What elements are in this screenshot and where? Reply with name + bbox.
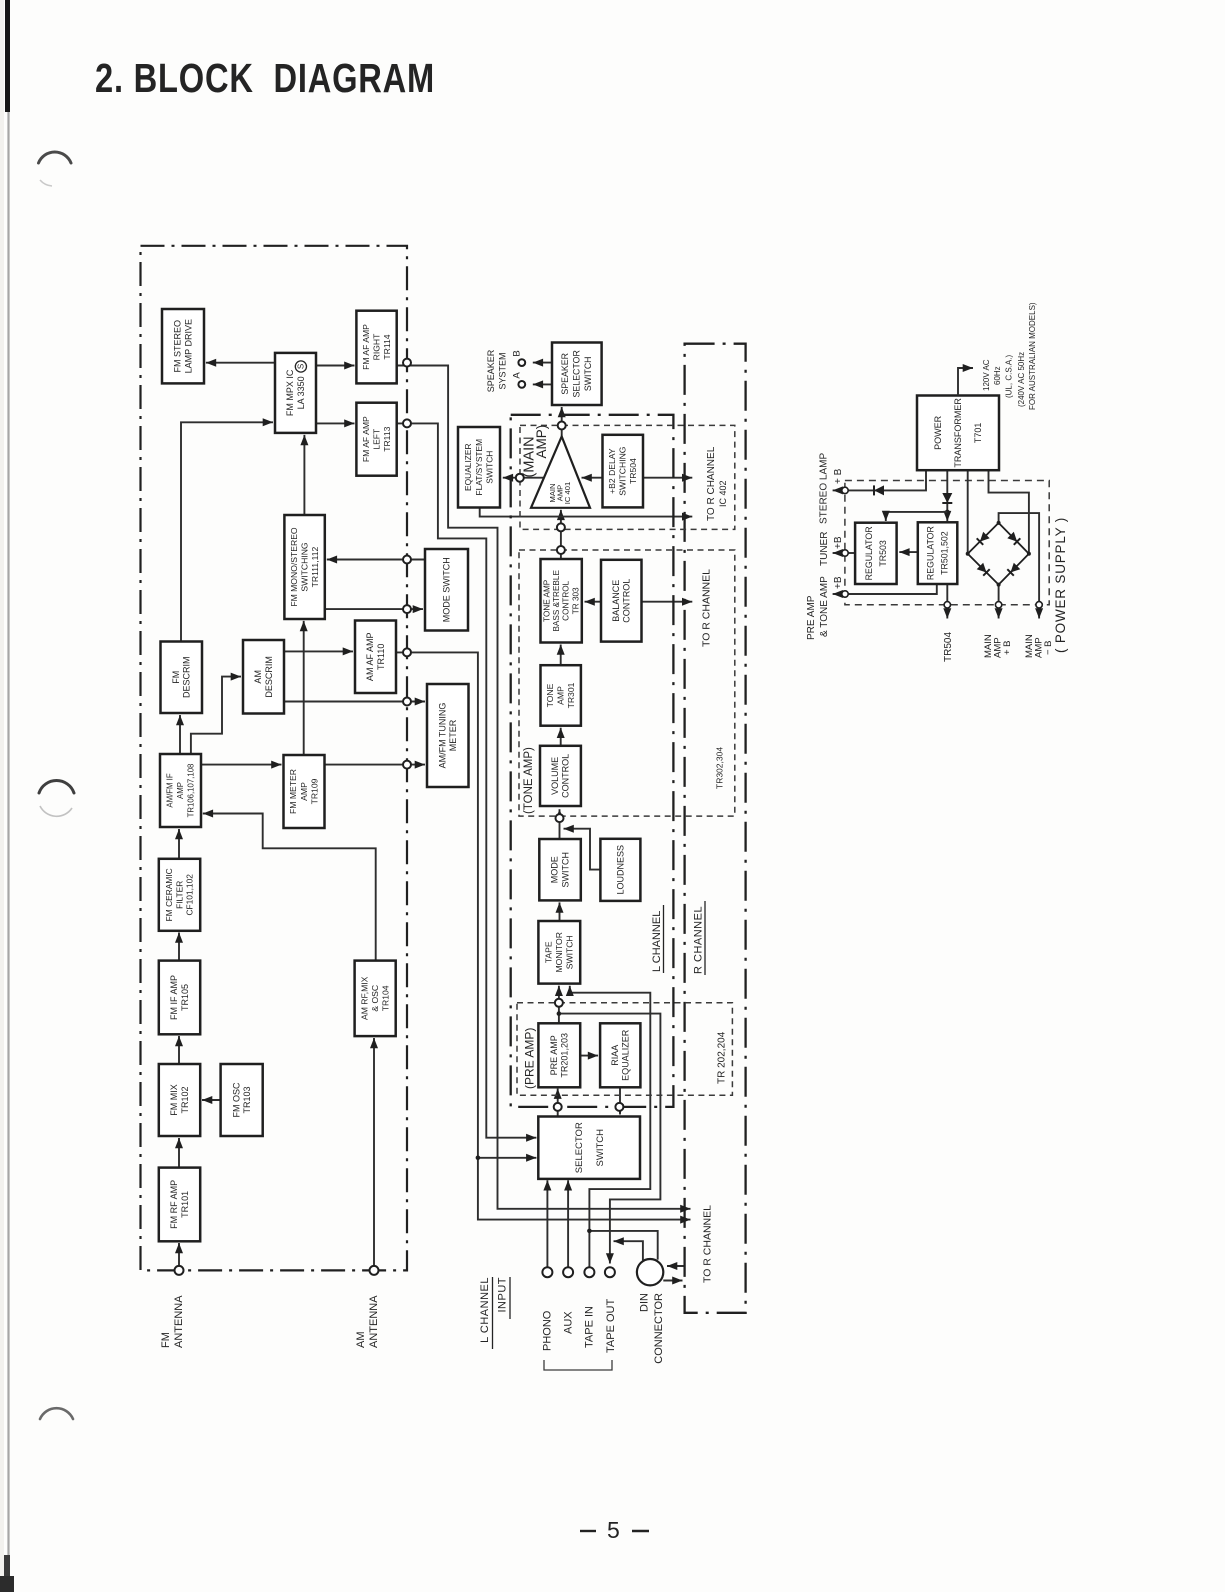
- svg-text:TR504: TR504: [943, 632, 954, 662]
- label 120V AC 60Hz: [982, 302, 1037, 410]
- svg-text:& TONE AMP: & TONE AMP: [819, 576, 830, 637]
- wire AUX to SELECTOR SWITCH: [567, 1180, 569, 1267]
- svg-text:SELECTOR: SELECTOR: [572, 350, 582, 397]
- block PRE AMP TR201 TR203: [538, 1023, 580, 1087]
- block FM AF AMP LEFT TR113: [356, 403, 396, 476]
- wire RIAA EQUALIZER to SELECTOR SWITCH: [619, 1087, 621, 1114]
- svg-text:TR 303: TR 303: [571, 587, 580, 614]
- svg-text:TR111,112: TR111,112: [310, 546, 320, 587]
- input group bracket: [544, 1360, 612, 1370]
- svg-text:TR103: TR103: [242, 1086, 252, 1113]
- wire PRE AMP record out to TAPE OUT: [559, 1014, 661, 1264]
- svg-text:TR504: TR504: [628, 458, 638, 484]
- block RIAA EQUALIZER: [600, 1023, 640, 1087]
- transformer T701 POWER TRANSFORMER: [917, 396, 999, 471]
- svg-text:TR102: TR102: [180, 1086, 190, 1113]
- wire FM antenna to FM RF AMP: [178, 1243, 180, 1270]
- svg-text:(TONE AMP): (TONE AMP): [523, 747, 535, 814]
- block FM DESCRIM: [161, 642, 203, 714]
- svg-text:MODE SWITCH: MODE SWITCH: [442, 557, 452, 622]
- node pre amp +B: [842, 591, 848, 597]
- label PRE AMP & TONE AMP +B: [806, 576, 844, 640]
- diode stereo lamp supply: [874, 485, 884, 495]
- svg-text:INPUT: INPUT: [497, 1277, 509, 1313]
- node TAPE IN input: [584, 1267, 594, 1277]
- node tuning meter AM: [403, 698, 411, 706]
- wire L channel audio to R channel: [478, 1158, 691, 1220]
- label (MAIN AMP): [521, 425, 549, 478]
- label R CHANNEL underlined: [693, 901, 705, 975]
- wire SPEAKER SELECTOR to speaker B: [533, 362, 552, 364]
- svg-text:TONE: TONE: [545, 683, 555, 707]
- svg-text:AM: AM: [355, 1332, 367, 1349]
- node TR114 output: [403, 359, 411, 367]
- svg-text:5: 5: [607, 1517, 620, 1543]
- wire PRE AMP to TAPE MONITOR SWITCH: [558, 986, 560, 1024]
- svg-text:FM MPX IC: FM MPX IC: [285, 369, 295, 416]
- svg-text:AMP): AMP): [534, 425, 549, 459]
- bridge rectifier D501-D504: [968, 523, 1029, 585]
- svg-text:AM RF,MIX: AM RF,MIX: [359, 976, 369, 1020]
- node TR504 supply: [944, 602, 950, 608]
- label MAIN AMP -B: [1024, 634, 1054, 658]
- svg-text:(PRE AMP): (PRE AMP): [523, 1028, 537, 1089]
- svg-text:FM: FM: [160, 1332, 172, 1348]
- page number: [580, 1517, 649, 1543]
- svg-text:FM MONO/STEREO: FM MONO/STEREO: [289, 527, 299, 607]
- svg-text:+B: +B: [833, 536, 844, 549]
- svg-text:CONNECTOR: CONNECTOR: [653, 1293, 665, 1364]
- svg-text:TO R CHANNEL: TO R CHANNEL: [701, 569, 713, 647]
- svg-text:TR114: TR114: [382, 334, 392, 359]
- svg-text:ANTENNA: ANTENNA: [173, 1295, 185, 1348]
- svg-text:SWITCH: SWITCH: [560, 852, 570, 888]
- svg-text:AM AF AMP: AM AF AMP: [365, 633, 375, 682]
- wire FM METER AMP to AM/FM TUNING METER: [325, 764, 426, 766]
- svg-text:(UL, C.S.A.): (UL, C.S.A.): [1005, 355, 1014, 398]
- node AM audio: [403, 648, 411, 656]
- svg-text:SPEAKER: SPEAKER: [560, 353, 570, 395]
- block AM/FM IF AMP TR106-108: [160, 754, 201, 827]
- svg-text:FLAT/SYSTEM: FLAT/SYSTEM: [474, 439, 484, 496]
- svg-text:EQUALIZER: EQUALIZER: [463, 443, 473, 490]
- svg-text:TR109: TR109: [309, 778, 319, 804]
- wire LOUDNESS to volume line: [564, 829, 601, 870]
- node PHONO input: [542, 1267, 552, 1277]
- svg-text:RIAA: RIAA: [610, 1045, 620, 1066]
- wire transformer to regulator TR501,502: [946, 470, 948, 521]
- svg-text:TO R CHANNEL: TO R CHANNEL: [702, 1205, 714, 1283]
- wire TAPE IN to TAPE MONITOR SWITCH: [570, 986, 651, 1267]
- block FM AF AMP RIGHT TR114: [356, 311, 396, 384]
- block FM IF AMP TR105: [159, 961, 200, 1035]
- node speaker system B: [518, 359, 525, 366]
- block SELECTOR SWITCH: [538, 1117, 640, 1179]
- node mode switch a: [403, 556, 411, 564]
- svg-text:SELECTOR: SELECTOR: [574, 1122, 585, 1173]
- wire TAPE MONITOR SWITCH to MODE SWITCH: [559, 902, 561, 921]
- svg-text:RIGHT: RIGHT: [371, 333, 381, 360]
- svg-text:L CHANNEL: L CHANNEL: [651, 911, 663, 972]
- svg-text:FM OSC: FM OSC: [231, 1082, 241, 1117]
- L channel dash-dot boundary box: [511, 415, 674, 1107]
- wire FM MONO/STEREO SWITCHING to FM MPX IC: [303, 435, 305, 515]
- label DIN CONNECTOR: [639, 1293, 666, 1364]
- svg-text:TR106,107,108: TR106,107,108: [187, 764, 196, 818]
- wire FM DESCRIM to FM MPX IC: [181, 422, 273, 641]
- wire MODE SWITCH to VOLUME CONTROL: [559, 809, 561, 839]
- svg-text:120V AC: 120V AC: [982, 359, 991, 391]
- block REGULATOR TR501 TR502: [918, 522, 958, 584]
- svg-text:TR104: TR104: [381, 985, 391, 1011]
- wire AM/FM IF AMP to FM METER AMP: [201, 764, 282, 766]
- svg-text:FM STEREO: FM STEREO: [173, 320, 183, 373]
- svg-text:METER: METER: [448, 719, 458, 751]
- wire transformer to bridge left: [967, 470, 969, 554]
- svg-text:B: B: [512, 350, 523, 356]
- scan edge artifacts (left border): [0, 0, 14, 1592]
- svg-text:SWITCHING: SWITCHING: [618, 446, 628, 495]
- wire MODE SWITCH to FM MONO/STEREO SWITCHING: [327, 559, 425, 561]
- connector DIN: [637, 1259, 663, 1285]
- svg-text:FM: FM: [171, 671, 181, 684]
- svg-text:TR105: TR105: [180, 984, 190, 1011]
- svg-text:CF101,102: CF101,102: [185, 874, 195, 916]
- junction dot tape in to DIN: [587, 1229, 592, 1234]
- block FM MONO/STEREO SWITCHING TR111 TR112: [284, 515, 324, 619]
- block FM STEREO LAMP DRIVE: [162, 309, 204, 383]
- svg-text:FOR AUSTRALIAN MODELS): FOR AUSTRALIAN MODELS): [1028, 302, 1037, 410]
- svg-text:POWER: POWER: [933, 415, 943, 450]
- wire FM OSC to FM MIX: [202, 1099, 221, 1101]
- wire main amp -B down arrow: [1038, 608, 1040, 619]
- punch hole top: [39, 152, 72, 163]
- svg-text:FM RF AMP: FM RF AMP: [169, 1180, 179, 1229]
- svg-text:SWITCHING: SWITCHING: [299, 542, 309, 591]
- svg-text:FM IF AMP: FM IF AMP: [169, 975, 179, 1020]
- svg-text:VOLUME: VOLUME: [550, 757, 560, 795]
- svg-text:TR302,304: TR302,304: [714, 747, 724, 789]
- svg-text:CONTROL: CONTROL: [622, 579, 632, 623]
- wire FM MPX IC to FM AF AMP LEFT TR113: [316, 422, 355, 424]
- svg-text:TR113: TR113: [382, 426, 392, 451]
- svg-text:60Hz: 60Hz: [993, 366, 1002, 385]
- svg-text:DESCRIM: DESCRIM: [264, 656, 274, 698]
- block REGULATOR TR503: [855, 523, 897, 584]
- wire PHONO to SELECTOR SWITCH: [546, 1180, 548, 1267]
- wire FM MPX IC to FM AF AMP RIGHT TR114: [316, 365, 355, 367]
- svg-text:LA 3350: LA 3350: [296, 376, 306, 409]
- node riaa to selector: [615, 1103, 623, 1111]
- junction dot record feed: [557, 1011, 562, 1016]
- wire BALANCE CONTROL to BASS TREBLE CONTROL: [585, 601, 602, 603]
- svg-text:FILTER: FILTER: [174, 881, 184, 909]
- svg-text:STEREO LAMP: STEREO LAMP: [818, 453, 829, 524]
- wire R channel to DIN connector: [667, 1265, 685, 1267]
- svg-text:IC 401: IC 401: [563, 482, 572, 504]
- node selector to preamp: [554, 1103, 562, 1111]
- block FM MPX IC LA3350: [275, 353, 316, 433]
- svg-text:+B2 DELAY: +B2 DELAY: [607, 448, 617, 494]
- svg-text:AUX: AUX: [563, 1311, 575, 1334]
- svg-text:TR501,502: TR501,502: [940, 531, 950, 575]
- svg-text:MODE: MODE: [550, 856, 560, 883]
- wire B2 DELAY SWITCHING to MAIN AMP: [582, 477, 603, 479]
- svg-text:R CHANNEL: R CHANNEL: [693, 906, 705, 974]
- wire FM MPX IC to FM STEREO LAMP DRIVE: [206, 362, 275, 364]
- node main amp +B: [995, 602, 1001, 608]
- node main amp output: [558, 422, 566, 430]
- wire AM DESCRIM to AM AF AMP: [284, 650, 353, 652]
- wire AM antenna to AM RF MIX OSC: [373, 1038, 375, 1270]
- label FM ANTENNA: [160, 1295, 185, 1348]
- svg-text:ANTENNA: ANTENNA: [368, 1295, 380, 1348]
- block VOLUME CONTROL: [540, 746, 581, 806]
- svg-text:FM METER: FM METER: [288, 769, 298, 814]
- wire FM RF AMP to FM MIX: [178, 1138, 180, 1168]
- wire PRE AMP to RIAA EQUALIZER: [580, 1055, 598, 1057]
- circled S mark: [295, 361, 306, 372]
- wire feed to regulator TR503: [886, 512, 948, 521]
- diode regulator supply: [942, 493, 952, 503]
- svg-text:TONE AMP: TONE AMP: [543, 579, 552, 622]
- svg-text:SYSTEM: SYSTEM: [498, 352, 508, 389]
- R channel dash-dot boundary box: [685, 344, 746, 1313]
- svg-text:(240V AC 50Hz: (240V AC 50Hz: [1017, 352, 1026, 407]
- block FM MIX TR102: [159, 1064, 200, 1136]
- svg-text:SWITCH: SWITCH: [485, 451, 495, 484]
- wire DIN connector to TAPE OUT line: [614, 1241, 643, 1260]
- node main amp -B: [1036, 602, 1042, 608]
- node FM antenna terminal: [175, 1266, 184, 1275]
- wire transformer to bridge right: [989, 470, 1029, 554]
- svg-text:CONTROL: CONTROL: [562, 580, 571, 620]
- svg-text:TR 202,204: TR 202,204: [716, 1031, 727, 1084]
- block MODE SWITCH (tuner): [425, 549, 468, 631]
- svg-text:MONITOR: MONITOR: [554, 932, 564, 972]
- svg-text:TR301: TR301: [566, 682, 576, 708]
- svg-text:AM: AM: [253, 670, 263, 684]
- label STEREO LAMP +B: [818, 453, 844, 524]
- wire FM MIX to FM IF AMP: [178, 1036, 180, 1064]
- node pre amp output: [555, 999, 563, 1007]
- node AM antenna terminal: [370, 1266, 379, 1275]
- wire EQUALIZER switch to R channel IC402: [480, 508, 693, 517]
- block MODE SWITCH: [539, 839, 581, 900]
- label L CHANNEL underlined: [651, 905, 663, 973]
- wire AM DESCRIM to AM/FM TUNING METER: [284, 701, 425, 703]
- svg-text:AM/FM IF: AM/FM IF: [166, 773, 175, 807]
- wire FM MONO/STEREO SWITCHING to MODE SWITCH: [325, 608, 423, 610]
- node main amp input: [516, 474, 524, 482]
- svg-text:PRE AMP: PRE AMP: [549, 1035, 559, 1075]
- diode bridge lower-right: [1007, 563, 1020, 576]
- wire MAIN AMP to SPEAKER SELECTOR SWITCH: [561, 407, 563, 437]
- wire FM METER AMP to FM MONO/STEREO SWITCHING: [303, 621, 305, 755]
- svg-text:AMP: AMP: [176, 782, 185, 799]
- block AM RF MIX OSC TR104: [355, 961, 396, 1037]
- MAIN AMP fine dashed box: [520, 425, 735, 529]
- wire FM AF AMP LEFT TR113 to SELECTOR SWITCH: [397, 423, 537, 1137]
- svg-text:PRE AMP: PRE AMP: [806, 595, 817, 640]
- block LOUDNESS: [600, 839, 640, 901]
- svg-text:TRANSFORMER: TRANSFORMER: [953, 398, 963, 468]
- power supply fine dashed boundary: [845, 481, 1049, 605]
- wire TR501,502 to TR504 node: [946, 584, 948, 602]
- wire TR503 output: [846, 552, 855, 554]
- node tuner +B: [842, 550, 848, 556]
- label SPEAKER SYSTEM: [486, 349, 508, 392]
- diode bridge lower-left: [977, 563, 990, 576]
- junction dot regulator feed: [945, 510, 950, 515]
- wire VOLUME CONTROL to TONE AMP: [560, 728, 562, 746]
- node stereo lamp +B: [842, 487, 848, 493]
- junction dot bridge top: [997, 521, 1001, 525]
- PRE AMP fine dashed box: [517, 1003, 732, 1096]
- block AM DESCRIM: [243, 640, 284, 714]
- svg-text:REGULATOR: REGULATOR: [926, 526, 936, 580]
- block FM METER AMP TR109: [284, 755, 325, 828]
- svg-text:T701: T701: [973, 423, 983, 444]
- wire SELECTOR SWITCH to PRE AMP: [557, 1089, 559, 1117]
- node speaker system A: [518, 381, 525, 388]
- svg-text:TUNER: TUNER: [819, 532, 830, 566]
- TONE AMP fine dashed box: [519, 550, 735, 816]
- svg-text:TAPE OUT: TAPE OUT: [605, 1299, 617, 1353]
- svg-text:TO R CHANNEL: TO R CHANNEL: [706, 446, 717, 521]
- wire FM CERAMIC FILTER to AM/FM IF AMP: [178, 829, 180, 859]
- block TONE AMP TR301: [541, 665, 581, 726]
- wire TAPE IN branch to DIN connector: [589, 1231, 657, 1260]
- block AM AF AMP TR110: [355, 621, 396, 694]
- svg-text:SWITCH: SWITCH: [565, 935, 575, 969]
- wire AC input: [958, 368, 973, 396]
- wire TONE AMP to BASS TREBLE CONTROL: [560, 645, 562, 666]
- svg-text:+ B: + B: [833, 468, 844, 484]
- svg-text:DESCRIM: DESCRIM: [182, 656, 192, 698]
- wire bridge top to main amp -B: [999, 513, 1040, 602]
- wire pre amp +B out: [833, 593, 846, 595]
- svg-text:TR101: TR101: [180, 1191, 190, 1218]
- diode bridge upper-left: [977, 532, 990, 545]
- svg-text:TR110: TR110: [376, 644, 386, 670]
- block BALANCE CONTROL: [601, 560, 642, 642]
- svg-text:LEFT: LEFT: [371, 428, 381, 450]
- wire AM AF AMP to SELECTOR SWITCH: [396, 652, 536, 1157]
- punch hole middle: [39, 781, 74, 794]
- svg-text:FM AF AMP: FM AF AMP: [361, 324, 371, 370]
- junction dot selector feed: [476, 1156, 481, 1161]
- wire transformer to stereo lamp supply: [848, 470, 926, 490]
- svg-text:CONTROL: CONTROL: [561, 754, 571, 798]
- svg-text:TAPE: TAPE: [544, 941, 554, 963]
- wire stereo lamp +B out: [833, 489, 846, 491]
- svg-text:L CHANNEL: L CHANNEL: [479, 1277, 491, 1343]
- label AM ANTENNA: [355, 1295, 380, 1348]
- svg-text:A: A: [512, 372, 523, 379]
- wire AM/FM IF AMP to AM DESCRIM: [191, 677, 241, 754]
- block B2 DELAY SWITCHING TR504: [603, 435, 644, 508]
- wire tuner +B out: [833, 552, 846, 554]
- wire FM AF AMP RIGHT TR114 to R channel: [397, 366, 691, 1209]
- svg-text:FM MIX: FM MIX: [169, 1084, 179, 1116]
- op-amp MAIN AMP IC401: [531, 437, 590, 508]
- node mode switch b: [403, 605, 411, 613]
- svg-text:TAPE IN: TAPE IN: [584, 1306, 596, 1348]
- svg-text:SWITCH: SWITCH: [595, 1129, 606, 1167]
- block AM/FM TUNING METER: [427, 684, 469, 787]
- svg-text:SWITCH: SWITCH: [583, 356, 593, 391]
- svg-text:DIN: DIN: [639, 1293, 651, 1312]
- svg-text:AMP: AMP: [299, 782, 309, 801]
- node volume input: [556, 814, 564, 822]
- wire TR504 down arrow: [946, 608, 948, 619]
- wire SPEAKER SELECTOR to speaker A: [533, 383, 552, 385]
- diode bridge upper-right: [1007, 532, 1020, 545]
- punch hole bottom: [40, 1408, 73, 1419]
- svg-text:FM CERAMIC: FM CERAMIC: [164, 868, 174, 921]
- svg-text:+ B: + B: [1002, 640, 1013, 655]
- block FM RF AMP TR101: [159, 1168, 200, 1242]
- svg-text:REGULATOR: REGULATOR: [864, 526, 874, 580]
- wire main amp +B down arrow: [998, 608, 1000, 619]
- wire AM/FM IF AMP to FM DESCRIM: [179, 715, 181, 754]
- svg-text:IC 402: IC 402: [718, 480, 728, 507]
- svg-text:LAMP DRIVE: LAMP DRIVE: [183, 319, 193, 373]
- svg-text:LOUDNESS: LOUDNESS: [615, 845, 625, 895]
- block TONE AMP BASS TREBLE CONTROL TR303: [541, 559, 582, 643]
- svg-text:+B: +B: [833, 576, 844, 589]
- svg-text:TR201,203: TR201,203: [560, 1033, 570, 1078]
- svg-text:FM AF AMP: FM AF AMP: [361, 416, 371, 462]
- node TAPE OUT output: [605, 1267, 615, 1277]
- node main amp in boundary: [557, 523, 565, 531]
- block TAPE MONITOR SWITCH: [538, 921, 580, 984]
- wire TR501,502 to pre amp +B: [848, 584, 937, 594]
- node AUX input: [563, 1267, 573, 1277]
- node TR113 output: [403, 419, 411, 427]
- svg-text:( POWER SUPPLY ): ( POWER SUPPLY ): [1053, 517, 1068, 653]
- svg-text:& OSC: & OSC: [370, 985, 380, 1012]
- node tuning meter FM: [403, 761, 411, 769]
- wire MAIN AMP input to EQUALIZER switch: [503, 477, 546, 479]
- svg-text:TR503: TR503: [878, 540, 888, 567]
- block SPEAKER SELECTOR SWITCH: [552, 343, 602, 406]
- node tone amp out boundary: [557, 546, 565, 554]
- svg-text:BALANCE: BALANCE: [611, 580, 621, 622]
- label L CHANNEL INPUT underlined: [479, 1277, 510, 1349]
- block EQUALIZER FLAT/SYSTEM SWITCH: [458, 427, 500, 508]
- svg-text:PHONO: PHONO: [541, 1310, 553, 1351]
- junction dot bridge bottom: [997, 583, 1001, 587]
- block FM CERAMIC FILTER CF101 CF102: [159, 859, 200, 931]
- label TUNER +B: [819, 532, 844, 566]
- wire BASS TREBLE CONTROL to MAIN AMP: [560, 510, 562, 559]
- svg-text:2. BLOCK DIAGRAM: 2. BLOCK DIAGRAM: [95, 55, 435, 101]
- wire AM RF MIX OSC to AM/FM IF AMP: [203, 814, 376, 961]
- svg-text:AM/FM TUNING: AM/FM TUNING: [437, 703, 447, 769]
- label MAIN AMP +B: [983, 634, 1013, 658]
- svg-text:EQUALIZER: EQUALIZER: [621, 1029, 631, 1081]
- wire BALANCE CONTROL to R channel: [642, 601, 693, 603]
- svg-text:SPEAKER: SPEAKER: [486, 349, 496, 392]
- svg-text:BASS &TREBLE: BASS &TREBLE: [552, 570, 561, 632]
- svg-text:S: S: [297, 364, 306, 369]
- wire B2 DELAY SWITCHING to R channel IC402: [643, 477, 692, 479]
- junction dot bridge right: [1027, 552, 1031, 556]
- wire DIN connector to R channel: [663, 1280, 682, 1282]
- wire regulator TR501,502 to TR503: [899, 551, 918, 553]
